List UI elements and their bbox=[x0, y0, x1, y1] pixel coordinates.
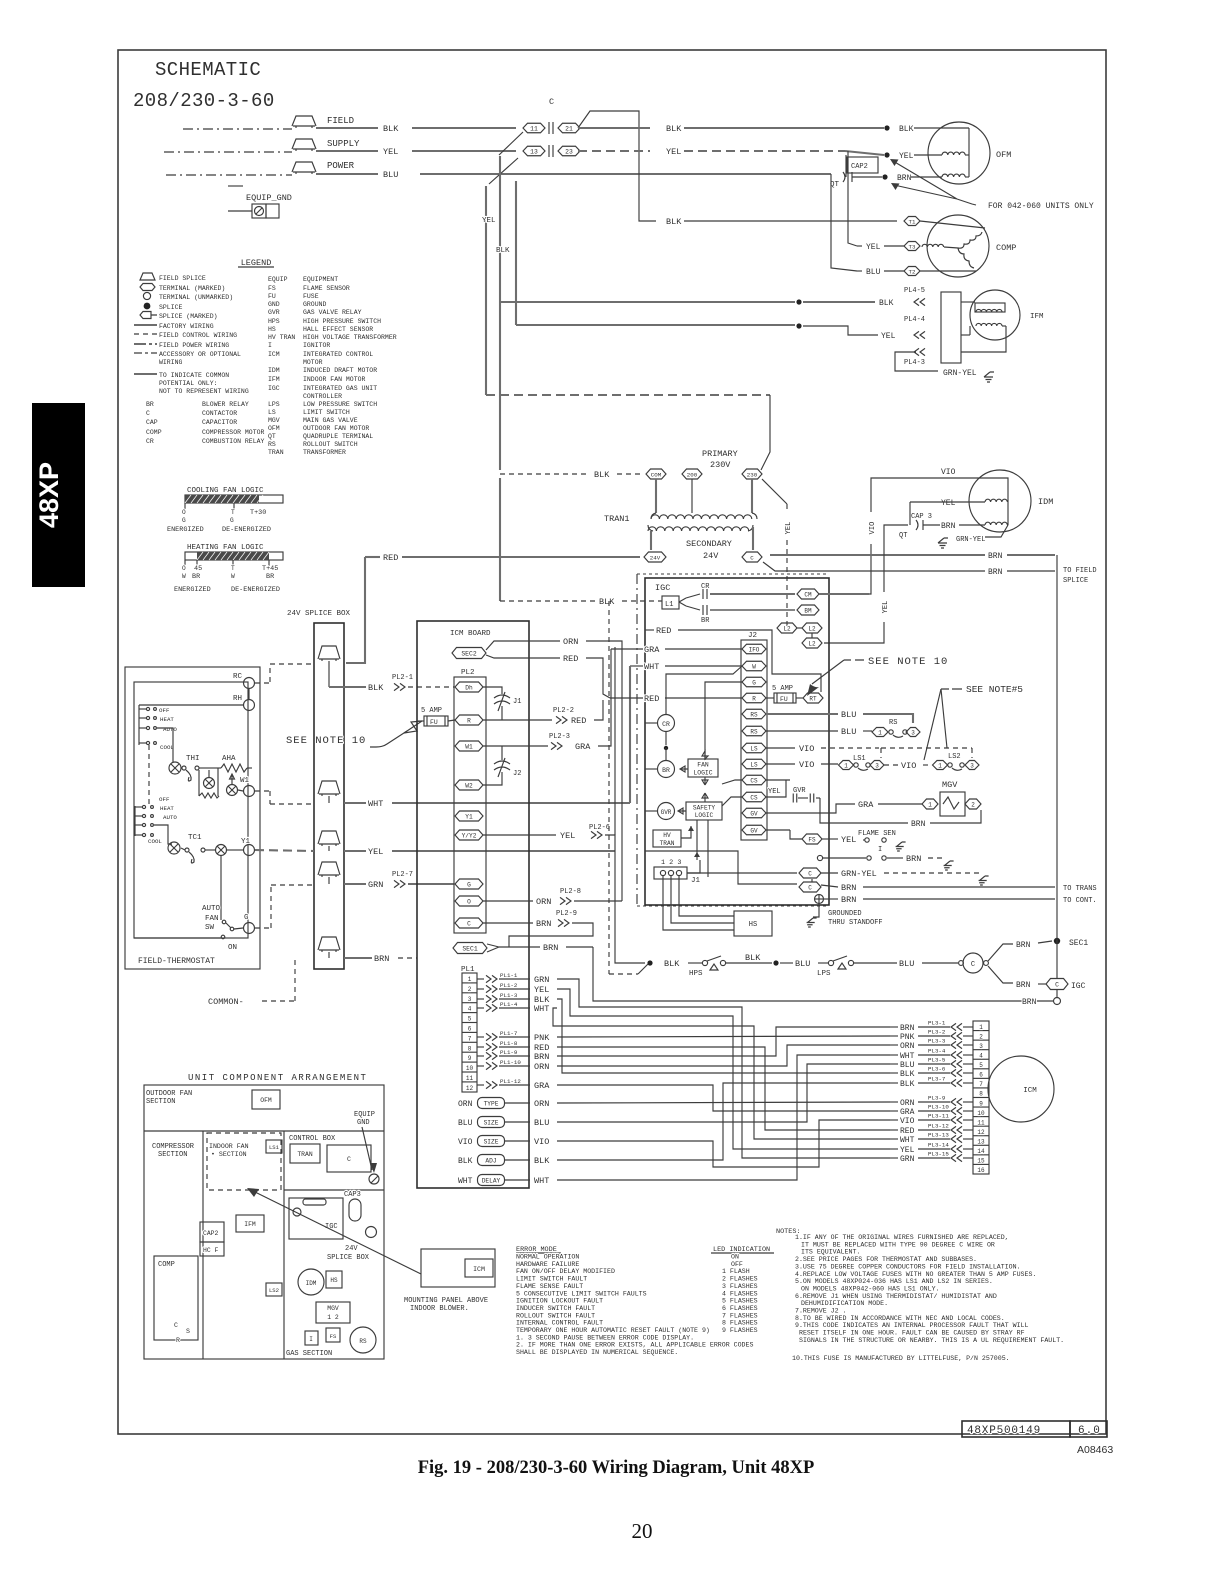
transformer box HV TRAN bbox=[653, 830, 681, 847]
svg-text:BRN: BRN bbox=[1022, 998, 1037, 1007]
wire WHT bbox=[328, 796, 330, 803]
note FOR 042-060 UNITS ONLY bbox=[893, 161, 976, 205]
switch HPS bbox=[702, 960, 707, 965]
svg-text:TO FIELD: TO FIELD bbox=[1063, 567, 1097, 575]
svg-text:1: 1 bbox=[878, 729, 882, 736]
svg-text:C: C bbox=[549, 97, 554, 107]
svg-text:I: I bbox=[309, 1336, 313, 1343]
svg-text:SEC1: SEC1 bbox=[462, 945, 478, 952]
svg-text:ORN: ORN bbox=[458, 1100, 473, 1109]
svg-text:GV: GV bbox=[750, 827, 758, 834]
svg-text:45: 45 bbox=[194, 565, 202, 573]
UCA outer box bbox=[144, 1085, 384, 1359]
svg-text:24V: 24V bbox=[650, 554, 661, 561]
svg-text:RESET ITSELF IN ONE HOUR. FAUL: RESET ITSELF IN ONE HOUR. FAULT CAN BE C… bbox=[799, 1330, 1025, 1337]
svg-text:LS1: LS1 bbox=[269, 1144, 280, 1151]
svg-text:24V: 24V bbox=[345, 1245, 358, 1253]
svg-text:CONTACTOR: CONTACTOR bbox=[202, 410, 237, 417]
svg-text:OFM: OFM bbox=[996, 150, 1011, 160]
wire RED to 24V secondary bbox=[402, 556, 640, 558]
mode switch heat bbox=[248, 688, 250, 699]
svg-text:5 CONSECUTIVE LIMIT SWITCH FAU: 5 CONSECUTIVE LIMIT SWITCH FAULTS bbox=[516, 1290, 647, 1297]
wire VIO LS row 1 bbox=[766, 747, 795, 749]
wire CS YEL GVR caps bbox=[766, 780, 786, 797]
svg-text:BRN: BRN bbox=[543, 943, 558, 953]
svg-text:COMBUSTION RELAY: COMBUSTION RELAY bbox=[202, 438, 265, 445]
svg-text:FLAME SENSE FAULT: FLAME SENSE FAULT bbox=[516, 1283, 583, 1290]
svg-text:W: W bbox=[182, 573, 186, 580]
svg-text:9: 9 bbox=[979, 1100, 983, 1107]
svg-text:RC: RC bbox=[233, 673, 243, 681]
svg-text:SEC2: SEC2 bbox=[461, 650, 477, 657]
svg-text:3.USE 75 DEGREE COPPER CONDUCT: 3.USE 75 DEGREE COPPER CONDUCTORS FOR FI… bbox=[795, 1263, 1021, 1270]
svg-text:PL2-3: PL2-3 bbox=[549, 733, 570, 741]
svg-text:1 2: 1 2 bbox=[327, 1314, 339, 1321]
svg-text:5: 5 bbox=[979, 1062, 983, 1069]
svg-text:PL3-7: PL3-7 bbox=[928, 1076, 946, 1083]
svg-text:EQUIP: EQUIP bbox=[268, 276, 288, 283]
logic box FAN LOGIC bbox=[688, 759, 718, 777]
svg-text:BLK: BLK bbox=[899, 125, 914, 134]
svg-text:BRN: BRN bbox=[988, 568, 1003, 577]
svg-text:YEL: YEL bbox=[560, 831, 575, 841]
motor COMP bbox=[927, 215, 989, 277]
svg-text:L2: L2 bbox=[808, 625, 816, 632]
wire GRA from GV bbox=[766, 804, 855, 813]
wire G down bbox=[705, 682, 742, 760]
svg-text:TO CONT.: TO CONT. bbox=[1063, 897, 1097, 905]
svg-text:PL1-7: PL1-7 bbox=[500, 1030, 518, 1037]
svg-text:ON: ON bbox=[731, 1254, 739, 1261]
svg-text:2: 2 bbox=[468, 986, 472, 993]
svg-text:COOLING FAN LOGIC: COOLING FAN LOGIC bbox=[187, 487, 264, 495]
svg-text:3: 3 bbox=[911, 729, 915, 736]
svg-text:RED: RED bbox=[571, 716, 586, 726]
wire BLK HPS LPS row bbox=[614, 647, 616, 835]
svg-text:9: 9 bbox=[468, 1055, 472, 1062]
svg-text:4: 4 bbox=[979, 1052, 983, 1059]
svg-text:ADJ: ADJ bbox=[485, 1157, 496, 1164]
svg-text:48XP: 48XP bbox=[34, 462, 64, 528]
terminal C GRN-YEL bbox=[799, 868, 821, 878]
svg-text:CM: CM bbox=[804, 591, 812, 598]
svg-text:PL1-8: PL1-8 bbox=[500, 1040, 518, 1047]
svg-text:GVR: GVR bbox=[661, 809, 672, 816]
svg-text:AHA: AHA bbox=[222, 755, 236, 763]
svg-text:BRN: BRN bbox=[374, 954, 389, 964]
svg-text:T: T bbox=[231, 509, 235, 516]
svg-text:6: 6 bbox=[468, 1026, 472, 1033]
svg-text:3: 3 bbox=[875, 762, 879, 769]
wire BLK PL4-5 bbox=[500, 301, 795, 303]
svg-text:DELAY: DELAY bbox=[482, 1177, 501, 1184]
svg-text:G: G bbox=[752, 679, 756, 686]
svg-text:PL4-4: PL4-4 bbox=[904, 316, 925, 324]
svg-text:BLK: BLK bbox=[666, 217, 682, 227]
svg-text:TRAN: TRAN bbox=[660, 840, 675, 847]
svg-text:C: C bbox=[1055, 981, 1059, 988]
svg-text:BLK: BLK bbox=[664, 959, 680, 969]
svg-text:BLOWER RELAY: BLOWER RELAY bbox=[202, 401, 249, 408]
svg-text:PL2-8: PL2-8 bbox=[560, 888, 581, 896]
svg-text:23: 23 bbox=[565, 148, 573, 155]
svg-text:LOGIC: LOGIC bbox=[695, 812, 714, 819]
svg-text:I: I bbox=[878, 846, 882, 854]
svg-text:6: 6 bbox=[979, 1072, 983, 1079]
terminals L2 bbox=[777, 623, 797, 633]
svg-text:TRAN: TRAN bbox=[297, 1151, 313, 1158]
svg-text:20: 20 bbox=[632, 1519, 653, 1543]
wires J1 to HS bbox=[663, 876, 734, 930]
svg-text:PL3-14: PL3-14 bbox=[928, 1142, 949, 1149]
wire WHT DELAY to PL3-4 bbox=[557, 1055, 890, 1180]
svg-text:GAS SECTION: GAS SECTION bbox=[286, 1350, 332, 1358]
wire BLK to PL4-5 row bbox=[515, 181, 517, 325]
svg-text:SECTION: SECTION bbox=[158, 1151, 187, 1159]
svg-text:WHT: WHT bbox=[534, 1176, 549, 1186]
capacitor CAP2 with QT bbox=[847, 157, 878, 173]
svg-text:HPS: HPS bbox=[689, 970, 703, 978]
svg-text:PL2-1: PL2-1 bbox=[392, 674, 413, 682]
svg-text:COMMON-: COMMON- bbox=[208, 997, 244, 1007]
svg-text:BRN: BRN bbox=[841, 895, 856, 905]
svg-text:T2: T2 bbox=[909, 268, 916, 275]
svg-text:YEL: YEL bbox=[383, 147, 398, 157]
svg-text:LPS: LPS bbox=[268, 401, 280, 408]
terminal FS flame bbox=[802, 834, 822, 844]
svg-text:PL3-6: PL3-6 bbox=[928, 1066, 946, 1073]
svg-text:LIMIT SWITCH: LIMIT SWITCH bbox=[303, 409, 350, 416]
svg-text:T3: T3 bbox=[909, 243, 916, 250]
border frame bbox=[118, 50, 1106, 1434]
svg-text:RED: RED bbox=[383, 553, 398, 563]
svg-text:IGC: IGC bbox=[268, 385, 280, 392]
svg-text:FLAME SEN: FLAME SEN bbox=[858, 830, 896, 838]
svg-text:INTEGRATED CONTROL: INTEGRATED CONTROL bbox=[303, 351, 373, 358]
svg-text:INDOOR BLOWER.: INDOOR BLOWER. bbox=[410, 1305, 469, 1313]
svg-text:UNIT COMPONENT ARRANGEMENT: UNIT COMPONENT ARRANGEMENT bbox=[188, 1073, 367, 1083]
svg-text:2 FLASHES: 2 FLASHES bbox=[722, 1276, 758, 1283]
svg-text:G: G bbox=[230, 517, 234, 524]
svg-text:PL1-10: PL1-10 bbox=[500, 1059, 521, 1066]
svg-text:A08463: A08463 bbox=[1077, 1444, 1113, 1456]
svg-text:W: W bbox=[752, 663, 756, 670]
svg-text:OUTDOOR FAN MOTOR: OUTDOOR FAN MOTOR bbox=[303, 425, 369, 432]
wire YEL dashed down to 230 bbox=[486, 394, 770, 396]
svg-text:BLK: BLK bbox=[496, 247, 510, 255]
svg-text:8.TO BE WIRED IN ACCORDANCE WI: 8.TO BE WIRED IN ACCORDANCE WITH NEC AND… bbox=[795, 1315, 1005, 1322]
svg-text:VIO: VIO bbox=[900, 1117, 915, 1126]
svg-text:FACTORY WIRING: FACTORY WIRING bbox=[159, 323, 214, 330]
svg-text:COMP: COMP bbox=[996, 243, 1016, 253]
svg-text:CS: CS bbox=[750, 777, 758, 784]
svg-text:PL2-7: PL2-7 bbox=[392, 871, 413, 879]
svg-text:DEHUMIDIFICATION MODE.: DEHUMIDIFICATION MODE. bbox=[801, 1300, 888, 1307]
svg-text:230: 230 bbox=[747, 471, 758, 478]
svg-text:230V: 230V bbox=[710, 460, 731, 470]
svg-text:MOUNTING PANEL ABOVE: MOUNTING PANEL ABOVE bbox=[404, 1297, 488, 1305]
wire W jumper to CR bbox=[666, 666, 742, 714]
svg-text:MOTOR: MOTOR bbox=[303, 359, 323, 366]
wire RC to BLK splice dashed bbox=[255, 682, 270, 684]
svg-text:LS1: LS1 bbox=[853, 755, 866, 763]
wire BLU field bbox=[420, 173, 831, 175]
wire RED inside IGC bbox=[645, 629, 654, 631]
wire W1 PL2-3 GRA bbox=[483, 745, 548, 747]
svg-text:J1: J1 bbox=[691, 877, 701, 885]
svg-text:TO TRANS: TO TRANS bbox=[1063, 885, 1097, 893]
svg-text:W: W bbox=[231, 573, 235, 580]
svg-text:YEL: YEL bbox=[666, 147, 681, 157]
svg-text:8: 8 bbox=[979, 1091, 983, 1098]
svg-text:SPLICE: SPLICE bbox=[1063, 577, 1088, 585]
svg-text:ICM BOARD: ICM BOARD bbox=[450, 630, 491, 638]
svg-text:FIELD CONTROL WIRING: FIELD CONTROL WIRING bbox=[159, 332, 237, 339]
svg-text:WHT: WHT bbox=[534, 1004, 549, 1014]
sensor box HS bbox=[734, 911, 772, 936]
svg-text:GRN: GRN bbox=[534, 975, 549, 985]
svg-text:200: 200 bbox=[687, 471, 698, 478]
svg-text:Fig. 19 - 208/230-3-60 Wiring: Fig. 19 - 208/230-3-60 Wiring Diagram, U… bbox=[418, 1458, 815, 1478]
svg-text:HARDWARE FAILURE: HARDWARE FAILURE bbox=[516, 1261, 579, 1268]
svg-text:PL3-12: PL3-12 bbox=[928, 1123, 949, 1130]
svg-text:1 2 3: 1 2 3 bbox=[661, 859, 681, 867]
wire YEL PL4-4 bbox=[516, 324, 795, 326]
svg-text:BLU: BLU bbox=[458, 1119, 473, 1128]
heat anticipator element bbox=[198, 770, 200, 796]
svg-text:BLU: BLU bbox=[841, 710, 856, 720]
svg-text:BRN: BRN bbox=[941, 522, 956, 531]
box COMP bbox=[154, 1256, 198, 1340]
svg-text:1: 1 bbox=[468, 976, 472, 983]
svg-text:BLU: BLU bbox=[866, 268, 881, 277]
svg-text:PL4-5: PL4-5 bbox=[904, 287, 925, 295]
contact BR bbox=[686, 606, 700, 610]
svg-text:SUPPLY: SUPPLY bbox=[327, 139, 360, 149]
svg-text:AUTO: AUTO bbox=[163, 726, 177, 733]
svg-text:SECONDARY: SECONDARY bbox=[686, 539, 732, 549]
svg-text:IGC: IGC bbox=[655, 583, 670, 593]
wire YEL staircase bbox=[557, 989, 890, 1149]
svg-text:10.THIS FUSE IS MANUFACTURED B: 10.THIS FUSE IS MANUFACTURED BY LITTELFU… bbox=[792, 1355, 1010, 1362]
svg-text:FU: FU bbox=[268, 293, 276, 300]
svg-text:PL3-13: PL3-13 bbox=[928, 1132, 949, 1139]
svg-text:PL1-3: PL1-3 bbox=[500, 992, 518, 999]
svg-text:T+30: T+30 bbox=[250, 509, 266, 517]
svg-text:THI: THI bbox=[186, 755, 200, 763]
svg-text:SEE NOTE 10: SEE NOTE 10 bbox=[868, 656, 948, 668]
svg-text:RED: RED bbox=[563, 654, 578, 664]
box TRAN bbox=[290, 1144, 320, 1163]
logic box SAFETY LOGIC bbox=[686, 802, 722, 820]
contactor coil C bbox=[959, 961, 964, 966]
svg-text:FU: FU bbox=[430, 719, 438, 726]
svg-text:OFF: OFF bbox=[731, 1261, 743, 1268]
svg-text:SPLICE: SPLICE bbox=[159, 304, 183, 311]
svg-text:YEL: YEL bbox=[768, 788, 781, 796]
svg-text:ORN: ORN bbox=[900, 1099, 915, 1108]
connector PL4 body bbox=[941, 292, 961, 363]
svg-text:BLK: BLK bbox=[900, 1080, 915, 1089]
svg-text:IDM: IDM bbox=[306, 1280, 317, 1287]
svg-text:PRIMARY: PRIMARY bbox=[702, 449, 738, 459]
svg-text:MAIN GAS VALVE: MAIN GAS VALVE bbox=[303, 417, 358, 424]
wire YEL from 230 down to L2 bbox=[762, 479, 787, 504]
box LS2 bbox=[266, 1283, 282, 1296]
svg-text:WHT: WHT bbox=[644, 662, 659, 672]
svg-text:FLAME SENSOR: FLAME SENSOR bbox=[303, 285, 350, 292]
svg-text:GRN: GRN bbox=[900, 1155, 915, 1164]
svg-text:CR: CR bbox=[701, 583, 710, 591]
wire BLU SIZE to PL3-5 bbox=[557, 1064, 890, 1122]
svg-text:5.ON MODELS 48XP024-036 HAS LS: 5.ON MODELS 48XP024-036 HAS LS1 AND LS2 … bbox=[795, 1278, 993, 1285]
svg-text:SEC1: SEC1 bbox=[1069, 939, 1088, 948]
svg-text:GROUNDED: GROUNDED bbox=[828, 910, 862, 918]
field supply power splices bbox=[292, 116, 316, 126]
wire W1 to WHT splice bbox=[255, 790, 270, 792]
box LS1 bbox=[266, 1140, 282, 1153]
svg-text:AUTO: AUTO bbox=[163, 814, 177, 821]
svg-text:C: C bbox=[750, 554, 754, 561]
svg-text:ICM: ICM bbox=[473, 1266, 485, 1273]
terminal C BRN to trans bbox=[799, 882, 821, 892]
box MGV bbox=[316, 1302, 350, 1323]
svg-text:WHT: WHT bbox=[458, 1177, 473, 1186]
svg-text:T1: T1 bbox=[909, 218, 916, 225]
svg-text:CAPACITOR: CAPACITOR bbox=[202, 419, 237, 426]
terminal BM bbox=[797, 605, 819, 615]
svg-text:LIMIT SWITCH FAULT: LIMIT SWITCH FAULT bbox=[516, 1276, 587, 1283]
svg-text:PL3-10: PL3-10 bbox=[928, 1104, 949, 1111]
wires safety logic to J1 bbox=[696, 820, 698, 860]
wire VIO SIZE to PL3-11 bbox=[557, 1120, 890, 1167]
svg-text:IFM: IFM bbox=[244, 1221, 256, 1228]
svg-text:PL3-1: PL3-1 bbox=[928, 1020, 946, 1027]
svg-text:3: 3 bbox=[979, 1043, 983, 1050]
svg-text:VIO: VIO bbox=[534, 1137, 549, 1147]
jumper J2 on board bbox=[483, 746, 502, 785]
svg-text:EQUIPMENT: EQUIPMENT bbox=[303, 276, 338, 283]
svg-text:COMPRESSOR MOTOR: COMPRESSOR MOTOR bbox=[202, 429, 265, 436]
svg-text:GRA: GRA bbox=[575, 742, 591, 752]
wire BLK ADJ to PL3-7 bbox=[557, 1083, 890, 1160]
svg-text:L2: L2 bbox=[808, 640, 816, 647]
svg-text:IDM: IDM bbox=[1038, 497, 1053, 507]
wire BLU RS jumper bbox=[766, 713, 838, 715]
svg-text:HS: HS bbox=[749, 921, 757, 929]
svg-text:TYPE: TYPE bbox=[484, 1100, 499, 1107]
wire O PL2-8 ORN bbox=[483, 900, 533, 902]
svg-text:TRAN1: TRAN1 bbox=[604, 514, 630, 524]
svg-text:3: 3 bbox=[468, 996, 472, 1003]
svg-text:BRN: BRN bbox=[1016, 941, 1031, 950]
svg-text:SEE NOTE#5: SEE NOTE#5 bbox=[966, 684, 1023, 695]
wires safety logic to CS terminals bbox=[722, 797, 742, 806]
svg-text:4: 4 bbox=[468, 1006, 472, 1013]
jumper J1 on board bbox=[483, 687, 502, 720]
svg-text:FS: FS bbox=[330, 1333, 337, 1340]
wire GRN PL2-7 bbox=[328, 877, 330, 884]
svg-text:ACCESSORY OR OPTIONAL: ACCESSORY OR OPTIONAL bbox=[159, 351, 241, 358]
wire G to GRN splice bbox=[255, 927, 271, 929]
svg-text:15: 15 bbox=[977, 1158, 985, 1165]
svg-text:8: 8 bbox=[468, 1045, 472, 1052]
svg-text:16: 16 bbox=[977, 1167, 985, 1174]
wire VIO from CM to IDM bbox=[824, 478, 1008, 594]
svg-text:CS: CS bbox=[750, 794, 758, 801]
svg-text:7 FLASHES: 7 FLASHES bbox=[722, 1312, 758, 1319]
svg-text:TERMINAL (MARKED): TERMINAL (MARKED) bbox=[159, 285, 225, 292]
svg-text:9 FLASHES: 9 FLASHES bbox=[722, 1327, 758, 1334]
svg-text:PL3-4: PL3-4 bbox=[928, 1048, 946, 1055]
svg-text:FUSE: FUSE bbox=[303, 293, 319, 300]
svg-text:BRN: BRN bbox=[1016, 981, 1031, 990]
svg-text:48XP500149: 48XP500149 bbox=[967, 1425, 1041, 1437]
svg-text:CAP3: CAP3 bbox=[344, 1191, 361, 1199]
svg-text:TRAN: TRAN bbox=[268, 449, 284, 456]
svg-text:YEL: YEL bbox=[534, 985, 549, 995]
wire BLK dashed to COM bbox=[500, 473, 590, 475]
svg-text:5 AMP: 5 AMP bbox=[772, 685, 793, 693]
svg-text:ROLLOUT SWITCH FAULT: ROLLOUT SWITCH FAULT bbox=[516, 1312, 595, 1319]
svg-text:O: O bbox=[467, 898, 471, 905]
svg-text:FOR 042-060 UNITS ONLY: FOR 042-060 UNITS ONLY bbox=[988, 202, 1094, 211]
svg-text:J2: J2 bbox=[513, 770, 521, 778]
svg-text:PL1-2: PL1-2 bbox=[500, 982, 518, 989]
svg-text:FAN: FAN bbox=[205, 915, 219, 923]
svg-text:10: 10 bbox=[977, 1110, 985, 1117]
svg-text:SEE NOTE 10: SEE NOTE 10 bbox=[286, 735, 366, 747]
svg-text:FIELD-THERMOSTAT: FIELD-THERMOSTAT bbox=[138, 957, 215, 966]
svg-text:R: R bbox=[467, 717, 471, 724]
svg-text:TEMPORARY ONE HOUR AUTOMATIC R: TEMPORARY ONE HOUR AUTOMATIC RESET FAULT… bbox=[516, 1327, 710, 1334]
box IGC (arrangement) bbox=[289, 1198, 343, 1239]
motor IDM bbox=[969, 470, 1031, 532]
svg-text:7: 7 bbox=[979, 1081, 983, 1088]
svg-text:PL3-2: PL3-2 bbox=[928, 1029, 946, 1036]
svg-text:GRA: GRA bbox=[900, 1108, 915, 1117]
svg-text:3 FLASHES: 3 FLASHES bbox=[722, 1283, 758, 1290]
field thermostat box bbox=[125, 667, 260, 969]
svg-text:5 AMP: 5 AMP bbox=[421, 707, 442, 715]
svg-text:CONTROL BOX: CONTROL BOX bbox=[289, 1135, 336, 1143]
svg-text:24V: 24V bbox=[703, 551, 719, 561]
svg-text:GRA: GRA bbox=[534, 1081, 550, 1091]
svg-text:ON: ON bbox=[228, 944, 237, 952]
svg-text:8 FLASHES: 8 FLASHES bbox=[722, 1320, 758, 1327]
svg-text:CAP2: CAP2 bbox=[851, 163, 868, 171]
svg-text:FIELD SPLICE: FIELD SPLICE bbox=[159, 275, 206, 282]
svg-text:GRN: GRN bbox=[368, 880, 383, 890]
svg-text:HV TRAN: HV TRAN bbox=[268, 334, 295, 341]
IGC enclosure bbox=[645, 578, 829, 905]
svg-text:GV: GV bbox=[750, 810, 758, 817]
svg-text:IGNITION LOCKOUT FAULT: IGNITION LOCKOUT FAULT bbox=[516, 1298, 603, 1305]
svg-text:J1: J1 bbox=[513, 698, 521, 706]
svg-text:YEL: YEL bbox=[841, 835, 856, 845]
svg-text:GRA: GRA bbox=[644, 645, 660, 655]
svg-text:BLU: BLU bbox=[900, 1061, 915, 1070]
wire BRN staircase to PL3-1 bbox=[557, 1027, 890, 1056]
svg-text:SIZE: SIZE bbox=[484, 1138, 499, 1145]
svg-text:RH: RH bbox=[233, 695, 242, 703]
svg-text:NORMAL OPERATION: NORMAL OPERATION bbox=[516, 1254, 579, 1261]
svg-text:QT: QT bbox=[268, 433, 276, 440]
svg-text:GVR: GVR bbox=[793, 787, 806, 795]
svg-text:MGV: MGV bbox=[942, 780, 958, 790]
svg-text:I: I bbox=[268, 342, 272, 349]
svg-text:CAP: CAP bbox=[146, 419, 158, 426]
